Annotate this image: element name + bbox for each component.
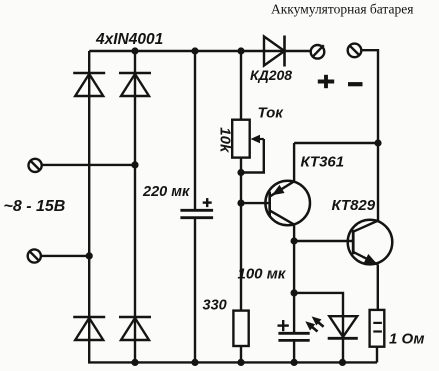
terminal AC1 (28, 159, 41, 172)
wire VT1 base lead (241, 202, 270, 204)
junction VT2 base node (291, 237, 298, 244)
svg-text:100 мк: 100 мк (238, 266, 287, 283)
junction bottom bus C2 (291, 359, 298, 366)
wire C2 to bottom bus (293, 340, 295, 362)
svg-text:КД208: КД208 (250, 67, 292, 83)
polarity plus of C1 (203, 198, 212, 207)
wire AC1 to leg2 (42, 164, 135, 166)
wire LED branch (294, 293, 343, 363)
diode VD3 (bottom-left of bridge) (73, 317, 105, 340)
transistor VT1 КТ361 (265, 181, 310, 226)
transistor VT2 КТ829 (348, 220, 393, 269)
wire bottom bus (88, 361, 377, 363)
wire bridge leg2 (134, 51, 136, 362)
junction LED branch node (291, 289, 298, 296)
label minus (348, 82, 363, 86)
terminal AC2 (28, 249, 41, 262)
wire VT2 base lead (294, 240, 353, 242)
diode VD5 КД208 (264, 36, 285, 67)
svg-text:Ток: Ток (258, 105, 285, 122)
wire bridge leg1 (88, 51, 90, 362)
svg-text:1 Ом: 1 Ом (389, 331, 424, 348)
junction bottom bus R2 (237, 359, 244, 366)
wire R2 to bottom bus (240, 346, 242, 362)
junction wiper return (237, 169, 244, 176)
junction AC1 leg2 (131, 161, 138, 168)
LED HL1 (328, 316, 358, 338)
junction top bus C1 (191, 47, 198, 54)
wire pot branch upper (240, 51, 242, 120)
wire VT1 collector down (293, 225, 295, 334)
svg-text:Аккумуляторная батарея: Аккумуляторная батарея (271, 2, 413, 17)
diode VD4 (bottom-right of bridge) (119, 317, 151, 340)
diode VD1 (top-left of bridge) (73, 73, 105, 96)
capacitor C2 100 мк (278, 333, 309, 340)
junction bottom bus leg2 (131, 359, 138, 366)
diode VD2 (top-right of bridge) (119, 73, 151, 96)
junction top bus pot (237, 47, 244, 54)
junction bottom bus LED (339, 359, 346, 366)
LED arrow 2 (309, 313, 324, 326)
potentiometer R1 10k body (232, 120, 250, 158)
label plus (318, 75, 334, 88)
wire VT2 emitter to R3 (377, 264, 379, 310)
terminal battery minus (348, 44, 362, 58)
wire negative rail (361, 50, 378, 220)
LED arrow 1 (303, 318, 318, 331)
wire C1 branch lower (194, 218, 196, 363)
wire wiper return (241, 139, 264, 173)
svg-text:КТ361: КТ361 (301, 154, 345, 171)
svg-text:330: 330 (203, 298, 227, 314)
wire R3 to bottom bus (376, 347, 378, 363)
junction VT1 base (237, 200, 244, 207)
junction bottom bus C1 (191, 359, 198, 366)
wire C1 branch upper (194, 51, 196, 210)
wire VT1 emitter to rail (294, 142, 378, 144)
potentiometer wiper arrow (251, 135, 264, 144)
capacitor C1 220 мк (180, 210, 213, 217)
wire VT1 emitter lead (293, 143, 295, 181)
svg-text:КТ829: КТ829 (332, 197, 376, 214)
wire AC2 to leg1 (41, 255, 89, 257)
wire top bus (89, 50, 310, 52)
svg-text:~8 - 15В: ~8 - 15В (4, 198, 66, 215)
wire pot to R2 (240, 158, 242, 311)
junction rail y143 (374, 139, 381, 146)
svg-text:4xIN4001: 4xIN4001 (95, 31, 163, 48)
junction top bus leg2 (131, 47, 138, 54)
polarity plus of C2 (278, 320, 289, 331)
svg-text:10k: 10k (217, 127, 234, 153)
resistor R2 330 body (233, 311, 248, 346)
svg-text:220 мк: 220 мк (142, 184, 190, 200)
junction AC2 leg1 (86, 252, 93, 259)
resistor R3 1 Ом body (370, 310, 385, 347)
terminal battery plus (311, 45, 325, 59)
